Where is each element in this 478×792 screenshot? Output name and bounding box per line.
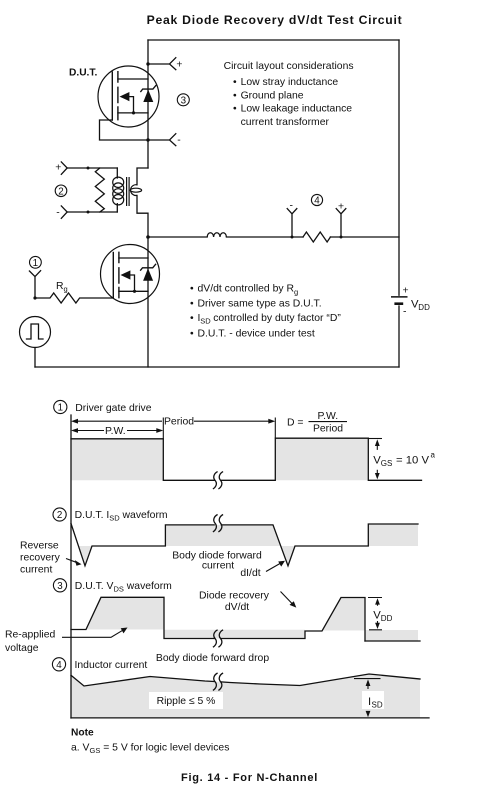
svg-text:1: 1 [33, 258, 38, 269]
svg-text:g: g [294, 288, 298, 297]
svg-text:g: g [64, 285, 68, 294]
svg-text:Ground plane: Ground plane [241, 90, 304, 101]
svg-text:Circuit layout considerations: Circuit layout considerations [224, 61, 354, 72]
waveform 4 trace [71, 674, 420, 686]
transistor D.U.T. source lead [118, 112, 148, 114]
inductor transformer secondary winding [137, 168, 148, 185]
svg-text:a: a [431, 451, 436, 460]
waveform 3 low line right [365, 640, 420, 642]
waveform 1 trace [71, 438, 422, 480]
svg-text:Driver gate drive: Driver gate drive [75, 403, 151, 414]
transistor driver substrate arrow [121, 270, 131, 279]
waveform 3 gray right strip [365, 630, 418, 641]
svg-text:Reverse: Reverse [20, 541, 59, 552]
wire right rail upper [398, 40, 400, 295]
resistor transformer damping (vertical) [95, 168, 104, 212]
svg-text:4: 4 [56, 660, 62, 671]
transistor driver source lead [119, 290, 148, 292]
wire main vertical through driver [147, 237, 149, 367]
node 3 label [53, 579, 66, 592]
dimension VGS [368, 438, 382, 440]
svg-text:dV/dt: dV/dt [225, 602, 249, 613]
svg-text:+: + [403, 286, 409, 297]
label ripple [149, 692, 223, 709]
svg-text:D.U.T. ISD waveform: D.U.T. ISD waveform [75, 510, 168, 523]
node source probe - junction [146, 138, 149, 141]
dimension VDD [368, 598, 382, 630]
waveform 1 break [213, 472, 223, 489]
waveform 3 break [213, 630, 223, 647]
transistor D.U.T. gate bar [111, 72, 113, 120]
svg-text:•: • [233, 77, 237, 88]
waveform axis vertical [70, 415, 72, 718]
svg-text:-: - [177, 135, 180, 146]
node 1 label [54, 400, 67, 413]
waveform 4 break [213, 673, 223, 690]
waveform 3 gray main band [86, 597, 164, 629]
node 4 [311, 194, 322, 205]
wire transformer top rail [67, 167, 117, 169]
svg-text:•: • [190, 283, 194, 294]
dimension extension lines [163, 418, 275, 439]
node 4 label [52, 658, 65, 671]
svg-text:Fig. 14 - For N-Channel: Fig. 14 - For N-Channel [181, 772, 318, 784]
transistor driver drain lead [119, 257, 148, 259]
wire pulse generator to bottom rail [34, 348, 36, 368]
waveform 3 gray band 2 [322, 598, 365, 631]
waveform 2 gray dip triangle [281, 546, 295, 566]
probe - on middle rail [291, 236, 294, 239]
waveform 2 trace [71, 524, 418, 566]
svg-text:D.U.T. VDS waveform: D.U.T. VDS waveform [75, 581, 172, 594]
waveform 2 gray body-diode band [165, 525, 280, 546]
svg-text:Peak Diode Recovery dV/dt Test: Peak Diode Recovery dV/dt Test Circuit [147, 13, 403, 27]
resistor sense (middle rail) [303, 232, 330, 242]
dimension ISD [354, 678, 381, 680]
wire probe - stub [148, 134, 176, 146]
waveform 1 gray pulse B [275, 438, 368, 480]
source pulse generator [20, 317, 51, 348]
node 2 label [53, 508, 66, 521]
waveform 3 trace [71, 597, 365, 641]
svg-text:2: 2 [57, 510, 62, 521]
battery VDD [391, 296, 408, 298]
inductor L (middle rail) [207, 233, 226, 237]
svg-text:Re-applied: Re-applied [5, 630, 55, 641]
svg-text:+: + [176, 60, 182, 71]
svg-text:dV/dt controlled by R: dV/dt controlled by R [198, 283, 295, 294]
svg-text:SD: SD [372, 701, 383, 710]
svg-text:D =: D = [287, 418, 303, 429]
wire bottom rail [35, 366, 399, 368]
node 3 [177, 94, 189, 106]
wire middle horizontal rail [148, 236, 399, 238]
svg-text:•: • [233, 104, 237, 115]
svg-text:P.W.: P.W. [105, 426, 126, 437]
svg-text:GS: GS [381, 459, 393, 468]
svg-text:Low leakage inductance: Low leakage inductance [241, 104, 353, 115]
svg-text:+: + [55, 163, 61, 174]
svg-text:3: 3 [181, 95, 187, 106]
dimension P.W. [77, 430, 157, 432]
svg-text:controlled by duty factor “D”: controlled by duty factor “D” [213, 313, 341, 324]
svg-text:D.U.T. - device under test: D.U.T. - device under test [198, 328, 315, 339]
wire top rail [148, 39, 399, 41]
svg-text:D.U.T.: D.U.T. [69, 68, 97, 79]
resistor R_g [35, 293, 113, 303]
svg-text:P.W.: P.W. [317, 411, 338, 422]
svg-text:Diode recovery: Diode recovery [199, 591, 270, 602]
probe fork at gate drive input [29, 271, 40, 298]
svg-text:Inductor current: Inductor current [75, 660, 148, 671]
transformer core [127, 177, 130, 206]
svg-text:Note: Note [71, 728, 94, 739]
svg-text:Period: Period [313, 424, 343, 435]
svg-text:= 10 V: = 10 V [396, 455, 429, 467]
svg-text:DD: DD [381, 614, 393, 623]
transistor D.U.T. substrate arrow [120, 92, 130, 101]
svg-text:current: current [202, 561, 234, 572]
svg-text:2: 2 [58, 186, 63, 197]
svg-text:3: 3 [57, 581, 63, 592]
node 1 [30, 256, 42, 268]
svg-text:current transformer: current transformer [241, 117, 330, 128]
transistor driver circle [101, 245, 160, 304]
svg-text:Low stray inductance: Low stray inductance [241, 77, 339, 88]
probe + on middle rail [340, 236, 343, 239]
waveform 4 zero line [71, 717, 429, 719]
svg-text:Driver same type as D.U.T.: Driver same type as D.U.T. [198, 298, 322, 309]
transistor D.U.T. channel segments [117, 72, 119, 120]
svg-text:current: current [20, 565, 52, 576]
svg-text:•: • [190, 298, 194, 309]
svg-text:•: • [190, 313, 194, 324]
inductor transformer primary winding [116, 168, 118, 212]
waveform 2 gray reverse-recovery triangle [79, 546, 93, 566]
svg-text:+: + [338, 202, 344, 213]
transistor driver channel segments [118, 252, 120, 297]
svg-text:Body diode forward drop: Body diode forward drop [156, 653, 269, 664]
svg-text:1: 1 [58, 403, 63, 414]
svg-text:recovery: recovery [20, 553, 61, 564]
transistor driver gate bar [112, 253, 114, 298]
wire right rail lower [398, 306, 400, 367]
transistor D.U.T. circle [98, 66, 159, 127]
svg-text:•: • [233, 90, 237, 101]
waveform 2 gray right block [368, 524, 418, 546]
svg-text:dI/dt: dI/dt [240, 568, 260, 579]
transistor D.U.T. drain lead [118, 78, 148, 80]
svg-text:-: - [290, 201, 293, 212]
svg-text:4: 4 [314, 196, 320, 207]
waveform 2 break [213, 515, 223, 532]
svg-text:Ripple ≤ 5 %: Ripple ≤ 5 % [157, 696, 216, 707]
svg-text:-: - [56, 207, 59, 218]
node main junction at driver drain [146, 235, 150, 239]
wire D.U.T. gate-source link [100, 120, 149, 140]
svg-text:-: - [403, 307, 406, 318]
node drain probe + junction [146, 62, 149, 65]
svg-text:Period: Period [164, 417, 194, 428]
wire transformer bottom rail [67, 211, 117, 213]
wire probe + stub [148, 58, 176, 70]
node 2 [55, 185, 67, 197]
diode D.U.T. body diode [141, 86, 156, 92]
dimension Period [77, 420, 269, 422]
waveform 3 gray low strip [164, 630, 305, 639]
diode driver body diode [141, 264, 156, 270]
waveform 1 gray pulse A [71, 439, 163, 481]
svg-text:SD: SD [200, 317, 211, 326]
svg-text:DD: DD [418, 303, 430, 312]
svg-text:voltage: voltage [5, 643, 39, 654]
wire main vertical (drain-source of D.U.T.) [147, 40, 149, 168]
svg-text:•: • [190, 328, 194, 339]
waveform 4 gray area [71, 674, 420, 718]
